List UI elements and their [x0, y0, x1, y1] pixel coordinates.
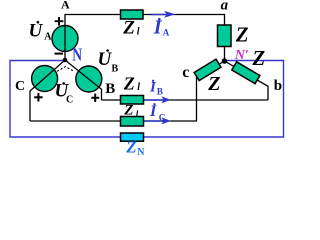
svg-text:C: C — [66, 94, 73, 105]
wire U_A upper lead — [64, 26, 66, 39]
junction node N' dot — [222, 58, 228, 64]
impedance Z_l phase C box — [121, 117, 144, 127]
label I_B — [149, 79, 163, 96]
wire load branch c from N' — [197, 61, 225, 78]
wire phase B from source B to node b — [102, 99, 269, 101]
svg-text:b: b — [274, 78, 282, 94]
polarity + of U_A — [55, 17, 64, 26]
current arrow I_B — [146, 96, 171, 103]
load impedance Z phase a box — [218, 25, 232, 47]
wire phase C from source C to node c riser — [30, 78, 197, 122]
wire phase A from node A to node a — [65, 15, 225, 26]
svg-text:B: B — [105, 81, 115, 97]
wire neutral blue loop N to N' — [10, 61, 284, 138]
svg-text:l: l — [137, 26, 140, 37]
wire U_A lower lead to N — [64, 39, 66, 61]
source U_A circle — [52, 26, 78, 52]
impedance Z_l phase A box — [121, 10, 144, 19]
svg-text:Z: Z — [235, 23, 249, 47]
svg-text:Z: Z — [207, 73, 220, 95]
svg-text:C: C — [15, 79, 25, 94]
load impedance Z phase b box — [232, 62, 260, 84]
label I_C — [149, 103, 165, 122]
source U_B circle — [76, 66, 102, 92]
svg-text:a: a — [221, 0, 229, 14]
svg-text:A: A — [44, 31, 52, 42]
label U_A — [29, 20, 53, 42]
wire N to source B diagonal — [65, 60, 102, 100]
polarity - of U_A — [55, 53, 64, 55]
polarity + of U_B — [91, 94, 99, 102]
dashed winding mark under node N — [57, 67, 74, 72]
value label Z_l phase C — [123, 102, 139, 119]
svg-text:A: A — [61, 0, 70, 12]
source U_C circle — [32, 66, 58, 92]
load impedance Z phase c box — [194, 59, 221, 80]
impedance Z_l phase B box — [121, 96, 144, 105]
svg-text:N′: N′ — [234, 48, 249, 63]
svg-text:A: A — [163, 28, 170, 38]
current arrow I_C — [146, 117, 171, 124]
junction node N dot — [63, 58, 68, 63]
svg-text:I: I — [149, 103, 157, 120]
polarity + of U_C — [34, 93, 42, 101]
wire load branch b from N' — [225, 61, 269, 100]
svg-text:C: C — [159, 113, 166, 123]
current arrow I_A — [151, 11, 176, 18]
svg-text:c: c — [182, 64, 189, 81]
svg-text:Z: Z — [122, 18, 135, 39]
svg-text:Z: Z — [125, 138, 136, 157]
label U_C — [55, 80, 74, 105]
label I_A — [153, 17, 170, 39]
label U_B — [98, 49, 119, 74]
svg-text:Z: Z — [123, 74, 135, 94]
wire load branch a stem — [224, 47, 226, 62]
value label Z_l phase A — [122, 18, 140, 39]
svg-text:U: U — [29, 20, 44, 41]
value label Z_l phase B — [123, 74, 141, 94]
svg-text:Z: Z — [123, 102, 133, 118]
svg-text:B: B — [157, 87, 163, 97]
svg-text:N: N — [72, 45, 82, 65]
svg-text:Z: Z — [251, 46, 265, 70]
svg-text:I: I — [153, 17, 163, 39]
wire N to source C diagonal — [30, 60, 65, 121]
svg-text:l: l — [137, 82, 140, 93]
value label Z_N neutral — [125, 138, 145, 158]
svg-text:U: U — [98, 49, 113, 70]
svg-text:B: B — [112, 64, 119, 75]
svg-text:N: N — [137, 147, 145, 158]
impedance Z_N neutral box — [121, 133, 144, 141]
